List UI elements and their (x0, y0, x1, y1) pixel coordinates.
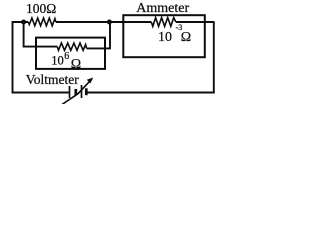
wire RV right lead to dot2 branch (87, 22, 110, 48)
ammeter box U1 (123, 15, 205, 57)
wire right rail down (213, 21, 215, 93)
svg-text:Ω: Ω (71, 57, 81, 72)
svg-text:10: 10 (51, 53, 64, 67)
variable-battery arrow (62, 79, 92, 105)
svg-text:Ammeter: Ammeter (136, 1, 189, 16)
svg-text:10: 10 (158, 30, 172, 45)
svg-text:6: 6 (64, 51, 69, 62)
resistor RV (voltmeter internal 10^6) zigzag (57, 43, 86, 50)
wire from R1 to ammeter box interior (56, 21, 151, 23)
wire bottom-left segment to battery (13, 91, 70, 94)
svg-text:Ω: Ω (181, 30, 191, 45)
wire battery to bottom-right corner (86, 92, 214, 94)
svg-text:Voltmeter: Voltmeter (26, 72, 79, 87)
resistor RA (ammeter internal) zigzag (151, 18, 176, 27)
node dot2 (junction on top wire, right) (107, 20, 112, 25)
battery BT1 plate 3 (long) (81, 85, 83, 98)
node dot1 (junction on top wire, left) (21, 20, 26, 25)
battery BT1 plate 2 (short thick) (74, 89, 77, 95)
wire from RA to box right edge and out to right rail (176, 21, 214, 23)
svg-text:100Ω: 100Ω (26, 1, 56, 16)
battery BT1 plate 4 (short thick) (85, 88, 88, 95)
battery BT1 plate 1 (long) (69, 86, 71, 98)
wire top-left segment with left corner (13, 22, 29, 93)
wire dot1 branch down to voltmeter resistor (24, 22, 58, 47)
resistor R1 100Ω zigzag (28, 18, 56, 26)
voltmeter box U2 (36, 38, 105, 69)
